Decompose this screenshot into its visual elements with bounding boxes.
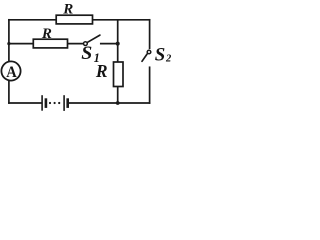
svg-text:A: A bbox=[6, 64, 17, 81]
svg-text:R: R bbox=[41, 26, 52, 42]
battery plate: cell 2 short thick bbox=[66, 98, 69, 108]
wire: left side vertical bbox=[8, 20, 10, 103]
battery plate: cell 2 long bbox=[63, 95, 65, 111]
junction node: middle vertical meets bottom wire bbox=[116, 101, 120, 105]
wire: middle vertical through R3 bbox=[117, 20, 119, 103]
wire: bottom side right of battery bbox=[69, 102, 149, 104]
svg-text:R: R bbox=[62, 1, 73, 17]
wire: middle branch horizontal, left part up to switch S1 bbox=[9, 43, 83, 45]
wire: middle branch horizontal, stub from S1 to node bbox=[101, 43, 118, 45]
wire: right side upper (down to switch S2) bbox=[149, 20, 151, 48]
svg-text:1: 1 bbox=[94, 51, 100, 65]
ammeter A (left side) bbox=[1, 61, 20, 81]
battery plate: cell 1 short thick bbox=[45, 98, 48, 108]
resistor R1 (top branch) bbox=[56, 1, 92, 24]
switch S2 (right side, open) bbox=[142, 44, 172, 65]
svg-text:S: S bbox=[81, 43, 92, 64]
wire: top side (left corner to right corner) bbox=[9, 19, 150, 21]
resistor R3 (vertical, middle) bbox=[95, 61, 123, 87]
switch S1 (middle branch, open) bbox=[81, 35, 100, 65]
battery (two cells with dots, bottom side) bbox=[42, 95, 68, 111]
wire: bottom side left of battery bbox=[9, 102, 41, 104]
svg-text:S: S bbox=[155, 44, 166, 65]
svg-text:2: 2 bbox=[165, 53, 172, 64]
junction node: left branch point bbox=[7, 42, 10, 45]
battery plate: cell 1 long bbox=[41, 95, 43, 111]
battery dots bbox=[49, 102, 51, 104]
junction node: branch meets middle vertical bbox=[116, 42, 120, 46]
resistor R2 (middle branch) bbox=[33, 26, 67, 48]
wire: right side lower (from switch S2 to bottom corner) bbox=[149, 67, 151, 103]
